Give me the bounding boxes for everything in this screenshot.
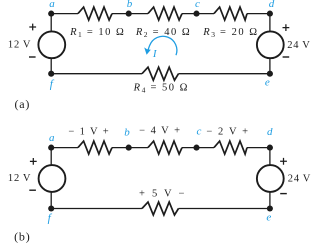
resistor (b) R2 bbox=[148, 141, 182, 154]
wire (b) bottom left bbox=[51, 208, 142, 210]
wire (b) b segment bbox=[112, 147, 148, 149]
svg-text:24 V: 24 V bbox=[288, 174, 311, 185]
node b (a) bbox=[126, 11, 132, 17]
wire (b) right vertical top bbox=[269, 148, 271, 166]
node d (b) bbox=[267, 145, 273, 151]
node a (a) bbox=[48, 11, 54, 17]
node c (b) bbox=[193, 145, 199, 151]
node b (b) bbox=[126, 145, 132, 151]
svg-text:a: a bbox=[49, 0, 55, 10]
wire (b) c segment bbox=[182, 147, 214, 149]
wire (a) right vertical top bbox=[269, 14, 271, 32]
wire (a) right vertical bottom bbox=[269, 58, 271, 73]
node e (b) bbox=[267, 205, 273, 211]
svg-text:b: b bbox=[124, 127, 130, 139]
node f (a) bbox=[48, 71, 54, 77]
minus sign left (a) bbox=[29, 56, 36, 58]
resistor (b) bottom 5V bbox=[142, 202, 179, 215]
wire (a) bottom left bbox=[51, 73, 142, 75]
plus sign left (b) bbox=[30, 158, 37, 165]
current arrow I (a) bbox=[144, 36, 177, 55]
wire (b) left vertical top bbox=[50, 148, 52, 166]
voltage source 12V (a) bbox=[38, 31, 65, 58]
wire (a) left vertical top bbox=[50, 14, 52, 32]
svg-text:e: e bbox=[266, 211, 271, 223]
svg-text:+ 5 V −: + 5 V − bbox=[139, 188, 187, 199]
svg-text:R4 = 50 Ω: R4 = 50 Ω bbox=[133, 82, 189, 94]
wire (b) right vertical bottom bbox=[269, 192, 271, 209]
svg-text:c: c bbox=[195, 0, 200, 10]
svg-text:e: e bbox=[265, 76, 270, 88]
plus sign right (a) bbox=[283, 24, 290, 31]
svg-text:− 2 V +: − 2 V + bbox=[206, 126, 249, 137]
resistor R3 bbox=[214, 7, 247, 20]
svg-text:− 4 V +: − 4 V + bbox=[139, 126, 181, 137]
svg-text:f: f bbox=[50, 78, 55, 90]
svg-text:a: a bbox=[49, 132, 55, 144]
wire (b) left vertical bottom bbox=[50, 192, 52, 209]
voltage source 24V (b) bbox=[257, 165, 284, 192]
wire b segment bbox=[112, 13, 148, 15]
node c (a) bbox=[193, 11, 199, 17]
resistor R2 bbox=[148, 7, 182, 20]
svg-text:c: c bbox=[197, 126, 202, 138]
node d (a) bbox=[267, 11, 273, 17]
svg-text:d: d bbox=[269, 0, 275, 10]
wire (b) bottom right bbox=[179, 208, 270, 210]
plus sign left (a) bbox=[29, 24, 36, 31]
svg-text:d: d bbox=[267, 126, 273, 138]
resistor R4 bbox=[142, 67, 179, 80]
node e (a) bbox=[267, 71, 273, 77]
resistor (b) R3 bbox=[214, 141, 247, 154]
wire (b) top: a-b-c-d with resistor zigzags bbox=[51, 147, 78, 149]
svg-text:R2 = 40 Ω: R2 = 40 Ω bbox=[135, 27, 191, 39]
node f (b) bbox=[48, 205, 54, 211]
wire (a) top: a-b-c-d with resistor zigzags bbox=[51, 13, 78, 15]
wire c segment bbox=[182, 13, 214, 15]
svg-text:R3 = 20 Ω: R3 = 20 Ω bbox=[202, 27, 258, 39]
svg-text:b: b bbox=[127, 0, 133, 10]
wire (b) to d bbox=[247, 147, 270, 149]
wire (a) bottom right bbox=[179, 73, 270, 75]
voltage source 12V (b) bbox=[39, 165, 66, 192]
svg-text:I: I bbox=[152, 48, 158, 60]
node a (b) bbox=[48, 145, 54, 151]
wire to d bbox=[247, 13, 270, 15]
svg-text:12 V: 12 V bbox=[8, 40, 31, 51]
plus sign right (b) bbox=[280, 158, 287, 165]
resistor (b) R1 bbox=[78, 141, 112, 154]
minus sign right (b) bbox=[280, 193, 287, 195]
svg-text:(a): (a) bbox=[14, 97, 30, 111]
svg-text:24 V: 24 V bbox=[287, 40, 310, 51]
svg-text:12 V: 12 V bbox=[8, 173, 31, 184]
svg-text:R1 = 10 Ω: R1 = 10 Ω bbox=[69, 27, 125, 39]
wire (a) left vertical bottom bbox=[50, 58, 52, 73]
svg-text:(b): (b) bbox=[14, 230, 30, 244]
resistor R1 bbox=[78, 7, 112, 20]
svg-text:f: f bbox=[48, 212, 53, 224]
voltage source 24V (a) bbox=[257, 31, 284, 58]
minus sign right (a) bbox=[283, 56, 290, 58]
svg-text:− 1 V +: − 1 V + bbox=[68, 126, 110, 137]
minus sign left (b) bbox=[29, 189, 36, 191]
